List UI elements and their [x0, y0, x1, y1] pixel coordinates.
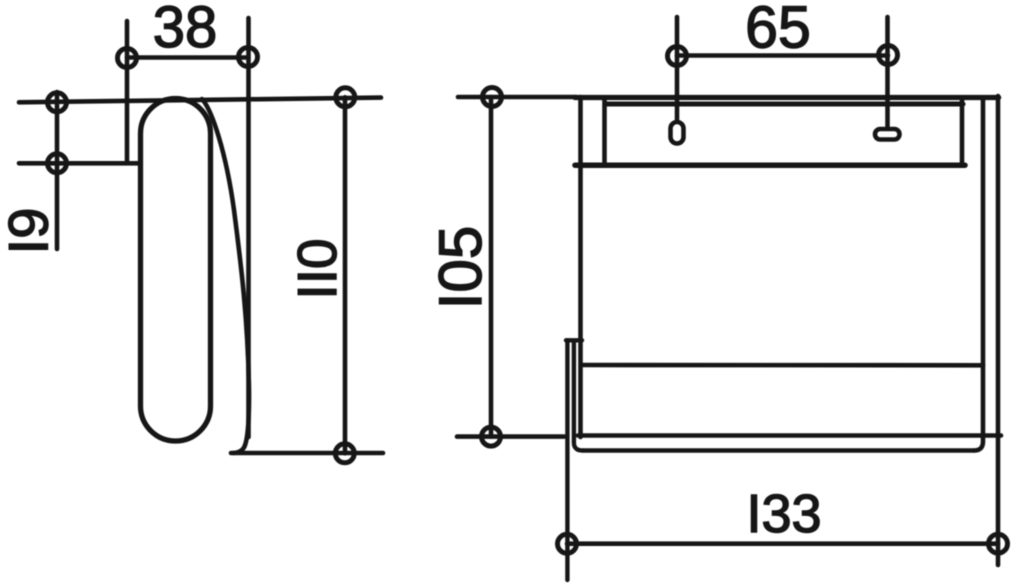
node: dim marker circle (19 dim lower) — [48, 154, 67, 173]
wire: 65-dimension horizontal line — [677, 53, 888, 58]
wire: 105-dimension vertical line — [489, 97, 494, 437]
node: dim marker circle top-left (19 dim upper) — [48, 93, 67, 112]
component: body outer right edge / 133 extension — [996, 96, 1001, 565]
wire: 38 right extension line — [246, 18, 251, 437]
node: dim marker circle (133 right) — [989, 534, 1008, 553]
wire: 65 right extension line — [885, 17, 890, 126]
component: body inner bottom edge — [578, 433, 1001, 438]
component: screw slot left (vertical obround) — [671, 122, 684, 144]
svg-text:38: 38 — [153, 0, 218, 60]
wire: 105 top reference line — [458, 95, 576, 100]
wire: top reference line left view — [19, 98, 381, 103]
component: body left outer edge — [578, 97, 583, 437]
node: dim marker circle (105 top) — [483, 88, 502, 107]
svg-text:I33: I33 — [746, 484, 821, 544]
node: dim marker circle (65 right) — [879, 46, 898, 65]
wire: 105 bottom reference line — [457, 434, 564, 439]
node: dim marker circle (38 left) — [118, 49, 137, 68]
node: dim marker circle (105 bottom) — [482, 427, 501, 446]
component: mounting plate inner top edge — [605, 101, 963, 106]
svg-text:II0: II0 — [286, 238, 348, 299]
node: dim marker circle (110 top) — [336, 88, 355, 107]
wire: 19-dimension vertical line — [55, 92, 60, 249]
component: plate left side face line — [602, 99, 607, 165]
node: dim marker circle (65 left) — [668, 47, 687, 66]
component: holder housing side profile (capsule) — [141, 99, 211, 442]
node: dim marker circle (38 right) — [239, 48, 258, 67]
component: plate right side face line — [960, 99, 965, 165]
component: lid lip tab outer-left edge merging into 133 extension line — [565, 340, 569, 580]
wire: 65 left extension line — [675, 17, 680, 119]
component: lid lip tab inner edge with corner to bottom — [574, 342, 583, 451]
component: body outer bottom edge — [583, 448, 974, 453]
wire: 38-dimension horizontal line — [127, 55, 248, 60]
component: roll bar line — [582, 363, 983, 368]
svg-text:65: 65 — [745, 0, 811, 61]
wire: 133-dimension horizontal line — [567, 541, 998, 546]
svg-text:I9: I9 — [0, 208, 60, 255]
wire: 110-dimension vertical line — [343, 97, 348, 453]
component: lid lip tab top cap — [566, 338, 582, 342]
component: cover top outer edge — [575, 95, 999, 100]
component: mounting plate bottom edge — [575, 162, 965, 168]
component: lid flap curve (side view) — [202, 99, 249, 453]
node: dim marker circle (133 left) — [558, 534, 577, 553]
wire: 38 left extension line — [125, 21, 130, 163]
node: dim marker circle (110 bottom) — [335, 444, 354, 463]
wire: bottom reference line left view — [231, 451, 383, 456]
component: body inner right edge with corner — [974, 99, 983, 451]
svg-text:I05: I05 — [427, 226, 494, 309]
wire: second reference line (19 offset) — [19, 161, 140, 166]
component: screw slot right (horizontal obround) — [875, 129, 900, 140]
